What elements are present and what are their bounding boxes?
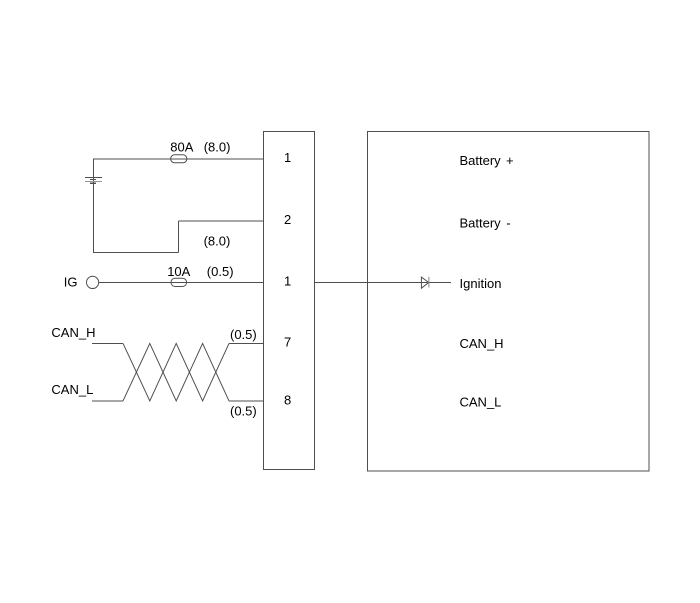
svg-text:-: -: [506, 216, 510, 231]
svg-text:(0.5): (0.5): [230, 327, 257, 342]
battery BT1: [85, 177, 102, 183]
wire row2 battery-: [179, 220, 264, 222]
svg-text:Battery: Battery: [460, 153, 502, 168]
svg-text:(0.5): (0.5): [207, 264, 234, 279]
fuse F2 10A: [171, 278, 187, 286]
svg-text:(8.0): (8.0): [204, 140, 231, 155]
connector J1: [263, 132, 314, 470]
wire CAN_L zigzag: [123, 343, 229, 401]
wire CAN_H right horizontal: [229, 342, 263, 344]
wire CAN_L left horizontal: [92, 400, 123, 402]
ECU box: [368, 131, 650, 471]
wire battery bottom horizontal: [93, 251, 179, 253]
svg-text:1: 1: [284, 150, 291, 165]
fuse F1 80A: [171, 155, 187, 163]
svg-text:CAN_L: CAN_L: [460, 395, 502, 410]
terminal IG: [87, 276, 99, 288]
wire row1 battery+: [93, 158, 263, 160]
svg-text:1: 1: [284, 274, 291, 289]
svg-text:CAN_H: CAN_H: [51, 325, 95, 340]
svg-text:7: 7: [284, 335, 291, 350]
svg-text:(8.0): (8.0): [204, 233, 231, 248]
svg-text:(0.5): (0.5): [230, 403, 257, 418]
svg-text:2: 2: [284, 212, 291, 227]
svg-text:IG: IG: [64, 274, 78, 289]
svg-text:8: 8: [284, 392, 291, 407]
wire CAN_H left horizontal: [92, 342, 123, 344]
wire row3 ignition left: [99, 281, 264, 283]
svg-text:80A: 80A: [170, 140, 193, 155]
wire vertical to row2: [178, 221, 180, 252]
wire battery vertical: [93, 159, 95, 253]
wire row3 ignition right: [315, 281, 451, 283]
svg-text:+: +: [506, 153, 514, 168]
svg-text:CAN_H: CAN_H: [460, 336, 504, 351]
svg-text:10A: 10A: [167, 264, 190, 279]
svg-text:CAN_L: CAN_L: [51, 382, 93, 397]
svg-text:Battery: Battery: [460, 216, 502, 231]
wire CAN_H zigzag: [123, 343, 229, 401]
diode D1: [421, 277, 429, 288]
wire CAN_L right horizontal: [229, 400, 263, 402]
svg-text:Ignition: Ignition: [460, 276, 502, 291]
